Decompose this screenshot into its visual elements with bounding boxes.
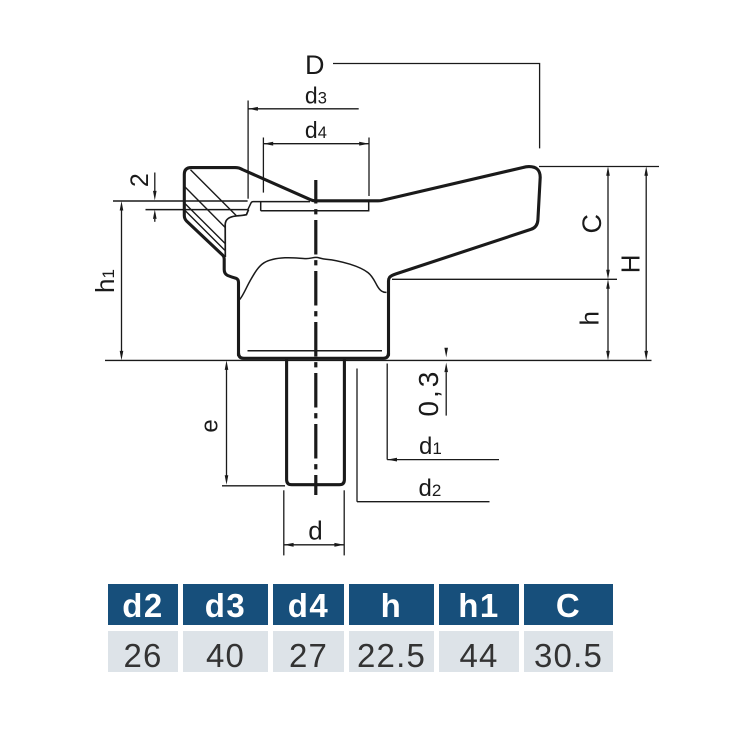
dimension d4: [263, 143, 369, 145]
knob outline: [184, 167, 540, 355]
svg-text:H: H: [616, 255, 646, 274]
baseline: [105, 359, 652, 361]
svg-text:C: C: [577, 214, 607, 234]
svg-text:h1: h1: [90, 269, 120, 293]
dimension 2: [154, 173, 156, 192]
svg-text:e: e: [197, 419, 224, 432]
dimension h1: [121, 210, 123, 351]
svg-text:0,3: 0,3: [413, 369, 444, 417]
svg-text:h: h: [574, 311, 604, 325]
wavy break line: [240, 257, 387, 299]
dimension table: [103, 578, 618, 678]
dimension e: [226, 369, 228, 476]
dimension d1 leader: [386, 364, 388, 460]
hatching: [184, 170, 236, 250]
stem: [287, 359, 345, 485]
svg-text:d3: d3: [305, 83, 327, 109]
svg-text:d1: d1: [419, 433, 442, 460]
svg-text:d2: d2: [419, 475, 442, 502]
dimension D leader: [333, 64, 540, 149]
svg-text:d: d: [308, 515, 322, 545]
center line: [314, 180, 317, 495]
dimension d2 leader: [356, 369, 358, 502]
recess lower reference line: [146, 209, 248, 211]
counterbore line: [248, 350, 383, 352]
hub bottom edge: [239, 353, 389, 358]
rim drop edge: [260, 202, 262, 211]
rim step profile: [248, 202, 311, 211]
dimension d3: [248, 108, 359, 110]
recess top reference line: [113, 200, 248, 202]
wing top extension line: [539, 166, 659, 168]
recess floor line: [261, 202, 369, 211]
dimension d: [284, 544, 344, 546]
dimension C: [607, 175, 609, 271]
svg-text:D: D: [305, 50, 325, 80]
dimension H: [645, 175, 647, 352]
svg-text:d4: d4: [305, 117, 327, 143]
wing inner edge: [225, 210, 248, 257]
svg-text:2: 2: [126, 173, 154, 187]
dimension h: [607, 288, 609, 352]
hub top extension line: [392, 278, 617, 280]
dimension 0,3: [444, 348, 448, 358]
